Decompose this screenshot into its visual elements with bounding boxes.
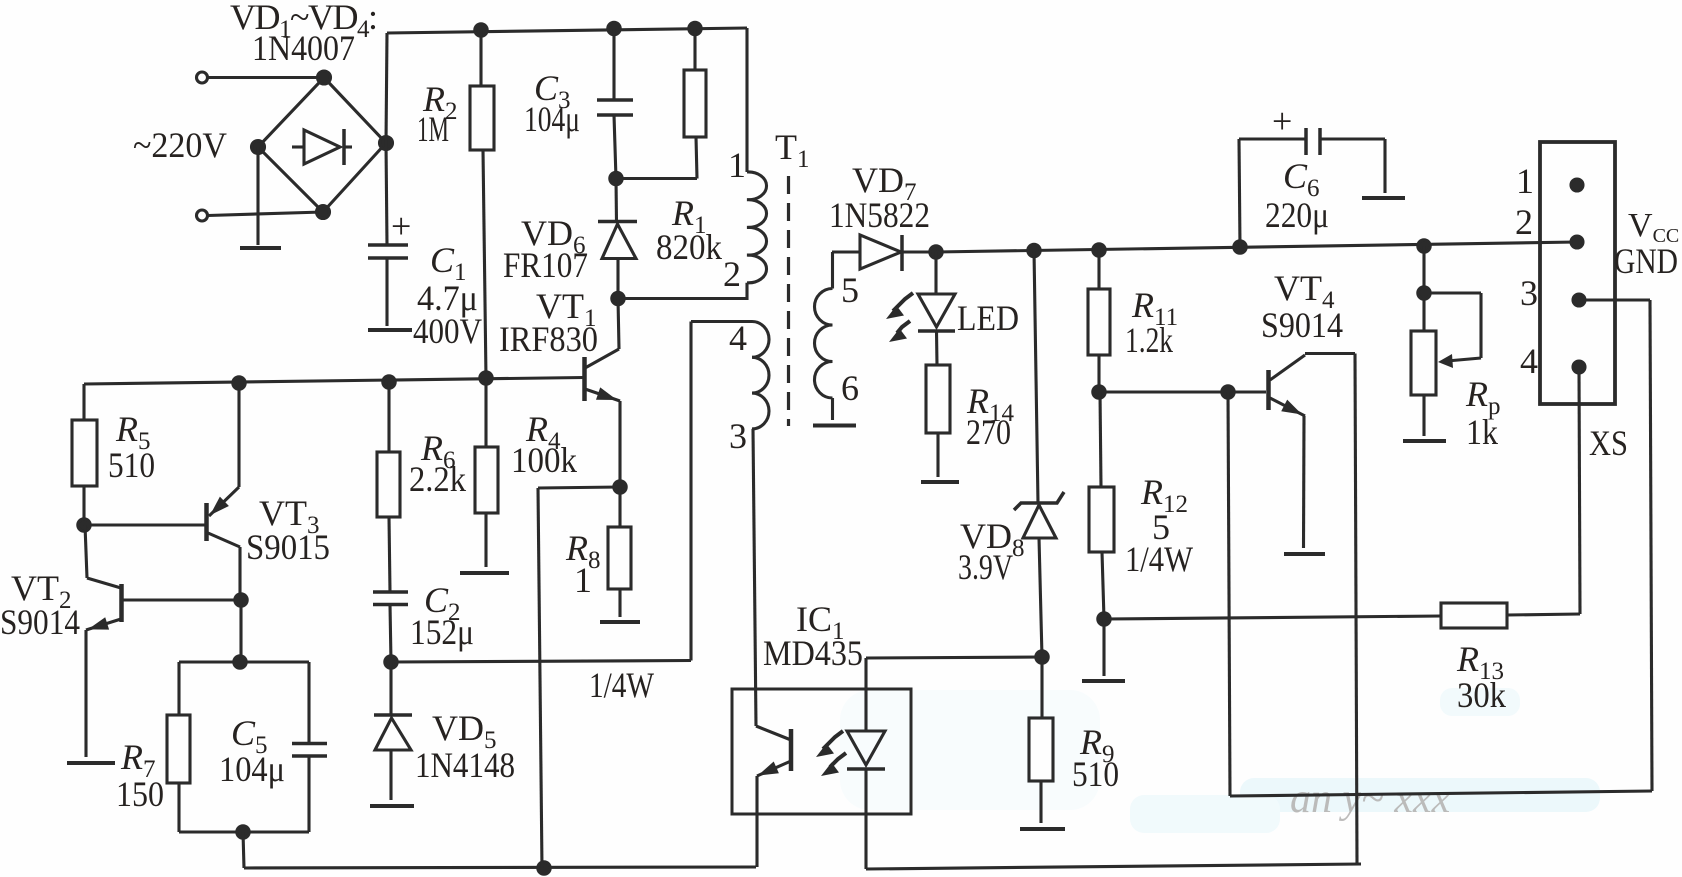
wire R7 bottom lead (177, 783, 180, 832)
wire gate rail corner to R5 (82, 384, 85, 420)
wire R13 to XS pin4 riser (1507, 614, 1580, 615)
svg-text:an y~ xxx: an y~ xxx (1290, 776, 1451, 822)
node bridge bottom vertex (317, 206, 330, 219)
LED light arrows (886, 293, 913, 342)
diode VD7 (832, 235, 936, 271)
svg-text:3.9V: 3.9V (958, 547, 1013, 587)
zener diode VD8 (1014, 492, 1064, 657)
node bridge left vertex (252, 141, 265, 154)
resistor R11 (1088, 289, 1110, 355)
node top rail R1 (689, 22, 701, 34)
svg-text:510: 510 (108, 445, 155, 485)
node VT1 source / R8 (614, 481, 626, 493)
svg-text:400V: 400V (413, 311, 482, 351)
wire bridge left vertex down (256, 147, 259, 245)
node R5/VT2 collector/VT3 base (78, 519, 90, 531)
wire T1 secondary bottom lead (831, 398, 834, 420)
wire C5 bottom lead (307, 756, 310, 832)
wire feedback winding top (691, 320, 752, 323)
svg-text:1/4W: 1/4W (589, 665, 654, 705)
svg-text:1: 1 (728, 145, 746, 185)
ground under R8 (600, 620, 640, 624)
connector XS outline (1540, 142, 1615, 404)
transformer T1 secondary winding pins 5-6 (815, 289, 833, 399)
svg-text:1N4148: 1N4148 (415, 745, 515, 785)
svg-text:2.2k: 2.2k (409, 459, 466, 499)
transistor VT4 (1269, 354, 1356, 549)
ground under secondary (813, 424, 856, 428)
wire R2 to gate rail (483, 150, 486, 378)
bridge rectifier VD1-VD4 diamond (258, 78, 386, 213)
node C2 bottom junction (385, 656, 397, 668)
wire T1 pin2 to node B (618, 283, 747, 299)
transistor VT1 (585, 299, 621, 488)
wire R1 bottom to node A (696, 137, 697, 179)
node R11/R12/VT4 base rail (1093, 386, 1105, 398)
node VD7 cathode / Vcc rail start (930, 246, 942, 258)
wire top rail (387, 28, 747, 33)
wire XS pin3 horizontal (1579, 298, 1650, 301)
node C5/R7 top (234, 656, 246, 668)
resistor R8 (608, 527, 631, 589)
wire R8 bottom lead (618, 589, 621, 617)
wire gate rail to R6 (387, 382, 390, 452)
node Rp wiper tap (1418, 287, 1430, 299)
diode VD6 (598, 179, 637, 299)
svg-text:~220V: ~220V (133, 125, 227, 165)
wire C5/R7 bottom to left ground rail (243, 832, 244, 868)
wire R7 top lead (177, 662, 180, 715)
wire R12 top lead (1100, 392, 1101, 487)
wire T1 pin3 down to IC1 (753, 429, 756, 726)
IC1 LED (847, 658, 885, 869)
node bridge right vertex (380, 137, 393, 150)
ground under Rp (1403, 439, 1446, 443)
svg-text:4: 4 (729, 318, 747, 358)
svg-text:1/4W: 1/4W (1125, 539, 1193, 579)
svg-text:150: 150 (116, 774, 164, 814)
XS pin 1 contact (1571, 179, 1583, 191)
XS pin 4 contact (1573, 361, 1585, 373)
wire VT2 base (123, 598, 241, 601)
svg-text:2: 2 (1515, 202, 1533, 242)
capacitor C6 (1306, 128, 1320, 155)
transformer T1 primary winding pins 1-2 (747, 172, 767, 283)
wire R12 bottom lead (1102, 552, 1104, 619)
wire C5/R7 bottom stub (179, 830, 309, 833)
wire gate rail to R4 (484, 378, 487, 447)
wire R8 node left (538, 487, 620, 488)
resistor R1 (684, 70, 706, 137)
wire Vcc rail to R11 (1097, 250, 1100, 289)
transformer T1 feedback winding pins 4-3 (752, 322, 769, 429)
svg-text:1: 1 (574, 560, 592, 600)
wire top rail corner down to T1 pin1 (745, 28, 748, 172)
wire top rail to R1 (693, 29, 696, 71)
wire node A horizontal (616, 177, 697, 180)
wire VT4 base rail (1099, 390, 1266, 393)
wire T1 secondary top lead (831, 252, 834, 289)
svg-text:S9015: S9015 (246, 527, 330, 567)
node Vcc rail C6 (1234, 241, 1246, 253)
wire Vcc rail (936, 242, 1577, 252)
potentiometer Rp body (1411, 331, 1436, 395)
ground under R4 (460, 571, 509, 575)
svg-text:100k: 100k (511, 440, 577, 480)
node left bottom rail (538, 862, 550, 874)
svg-text:1M: 1M (417, 109, 449, 149)
svg-text:3: 3 (1520, 273, 1538, 313)
resistor R5 (72, 420, 97, 486)
resistor R2 (470, 86, 494, 150)
wire R6 to C2 (389, 517, 390, 592)
svg-text:4: 4 (1520, 341, 1538, 381)
svg-text:FR107: FR107 (503, 245, 588, 285)
svg-text:LED: LED (957, 298, 1019, 338)
node gate rail VT3 (233, 377, 245, 389)
wire C6 left horizontal (1239, 137, 1306, 140)
wire Rp bottom lead (1422, 395, 1425, 436)
transistor VT2 (85, 525, 122, 757)
wire top rail to R2 (479, 30, 482, 86)
wire R4 to ground (484, 513, 487, 567)
wire Rp top lead (1422, 246, 1425, 331)
node base rail loop (1222, 386, 1234, 398)
wire bridge right vertex down to C1 (386, 143, 387, 245)
wire R5 bottom (82, 486, 85, 525)
wire C2 bottom (390, 605, 391, 663)
wire bridge right vertex up to top rail (386, 33, 387, 143)
node R12 bottom (1098, 613, 1110, 625)
svg-text:1N5822: 1N5822 (829, 195, 930, 235)
capacitor C5 (292, 744, 327, 757)
svg-text:2: 2 (723, 254, 741, 294)
node top rail R2 (475, 24, 487, 36)
wire C2 node to feedback winding riser (391, 661, 691, 663)
wire C1 to ground (385, 258, 388, 326)
wire VT4 collector down to right bottom rail (1355, 354, 1357, 865)
wire source column down to bottom rail (538, 488, 542, 868)
resistor R7 (167, 715, 190, 783)
svg-text:270: 270 (966, 412, 1011, 452)
node gate rail R6 (383, 376, 395, 388)
transistor VT3 (207, 383, 241, 600)
bridge inner diode symbol (292, 129, 352, 165)
wire R12 node to R13 (1104, 616, 1441, 619)
AC input terminal bottom (197, 210, 208, 221)
svg-text:1.2k: 1.2k (1125, 320, 1173, 360)
ground under R14 (921, 480, 959, 484)
svg-text:5: 5 (841, 270, 859, 310)
IC1 light arrows (816, 731, 846, 776)
resistor R13 (1441, 603, 1507, 628)
node B junction dot (VD6 anode / T1 pin2) (612, 292, 624, 304)
resistor R6 (377, 452, 400, 517)
node Vcc rail R11 (1093, 244, 1105, 256)
ground under C6 (1362, 196, 1405, 200)
node Vcc rail Rp (1418, 240, 1430, 252)
wire C5/R7 top stub (179, 660, 309, 663)
svg-text:IRF830: IRF830 (499, 319, 598, 359)
svg-text:XS: XS (1589, 423, 1628, 463)
svg-text:3: 3 (729, 416, 747, 456)
wire top terminal to bridge (208, 76, 324, 79)
wire C6 right horizontal (1320, 137, 1385, 140)
LED indicator (918, 252, 955, 365)
ground under bridge (240, 246, 281, 250)
capacitor C3 (597, 100, 633, 115)
AC input terminal top (197, 72, 208, 83)
node VT3 collector / VT2 base rail (235, 594, 247, 606)
node C5/R7 bottom (237, 826, 249, 838)
ground under C1 (368, 328, 412, 332)
wire C6 to ground (1383, 139, 1386, 193)
svg-text:820k: 820k (656, 227, 722, 267)
ground under R9 (1020, 827, 1065, 831)
wire R11 bottom lead (1097, 355, 1100, 392)
wire C5 top lead (307, 662, 310, 744)
wire C3 to node A (614, 115, 616, 179)
Rp wiper loop (1424, 293, 1481, 368)
svg-text:+: + (1272, 101, 1292, 141)
wire R9 top lead (1040, 657, 1043, 718)
wire Vcc rail to VD8 (1034, 251, 1038, 504)
svg-text:104μ: 104μ (524, 99, 580, 139)
wire R8 top lead (618, 487, 621, 527)
svg-text:S9014: S9014 (1261, 305, 1343, 345)
node VD8 anode / R9 / IC1 LED (1036, 651, 1048, 663)
wire XS pin3 riser (1650, 300, 1652, 791)
wire bottom terminal to bridge (208, 212, 323, 216)
wire XS pin4 riser (1579, 367, 1580, 614)
XS pin 3 contact (1573, 294, 1585, 306)
wire top rail to C3 (612, 29, 615, 101)
wire node to VT3 base (84, 523, 205, 526)
node A junction dot (610, 172, 622, 184)
svg-text:1N4007: 1N4007 (252, 28, 355, 68)
resistor R14 (926, 365, 950, 433)
XS pin 2 contact (1571, 236, 1583, 248)
T1 core dashed line (787, 176, 790, 426)
wire VT4 base loop down (1228, 392, 1230, 796)
wire R9 bottom lead (1039, 781, 1042, 823)
capacitor C1 (368, 245, 408, 258)
resistor R12 (1089, 487, 1114, 552)
svg-text:30k: 30k (1457, 675, 1506, 715)
wire C6 riser (1239, 139, 1240, 247)
IC1 phototransistor (756, 726, 791, 867)
svg-text:GND: GND (1614, 241, 1678, 281)
svg-text:+: + (391, 206, 411, 246)
ground VT2 emitter (67, 761, 115, 765)
node top rail C3 (608, 22, 620, 34)
svg-text:6: 6 (841, 368, 859, 408)
svg-text:S9014: S9014 (0, 602, 80, 642)
optocoupler IC1 package (732, 689, 911, 814)
svg-text:MD435: MD435 (763, 633, 863, 673)
node gate rail R2/R4 (480, 372, 492, 384)
svg-text:220μ: 220μ (1265, 195, 1329, 235)
wire left bottom rail (244, 867, 756, 868)
svg-text:152μ: 152μ (410, 612, 474, 652)
wire VT3 collector down to C5/R7 top (239, 600, 242, 662)
wire R14 bottom lead (936, 433, 939, 477)
wire feedback winding riser (689, 322, 692, 661)
node bridge top vertex (318, 71, 331, 84)
svg-text:104μ: 104μ (219, 749, 285, 789)
resistor R4 (475, 447, 498, 513)
diode VD5 (374, 662, 412, 800)
capacitor C2 (373, 592, 408, 605)
wire gate rail (84, 378, 584, 385)
wire right bottom rail (866, 864, 1361, 869)
svg-text:510: 510 (1072, 754, 1119, 794)
ground under VD5 (370, 804, 414, 808)
wire node to IC1 LED anode (866, 657, 1042, 658)
node Vcc rail VD8 (1028, 244, 1040, 256)
svg-text:1k: 1k (1466, 412, 1498, 452)
resistor R9 (1029, 718, 1053, 781)
wire VT4 base loop bottom (1230, 791, 1652, 796)
ground VT4 emitter (1284, 552, 1325, 556)
svg-text:1: 1 (1516, 161, 1534, 201)
wire R12 node to ground (1102, 619, 1105, 676)
ground under R12 (1082, 679, 1125, 683)
